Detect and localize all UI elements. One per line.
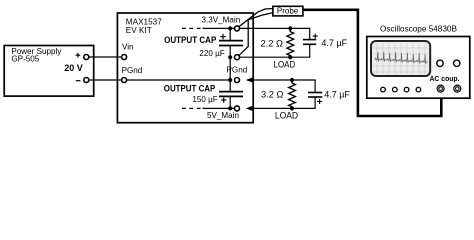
BNC jack input 2 xyxy=(454,85,461,92)
wire - to PGnd xyxy=(89,79,230,81)
svg-text:LOAD: LOAD xyxy=(275,111,298,121)
dashed internal wire 3.3V xyxy=(182,27,203,29)
junction resistor R1 top xyxy=(288,26,292,30)
arrow into PGnd lower pin xyxy=(246,78,253,83)
plus terminal label xyxy=(76,53,81,58)
probe tip wire from 3.3V pin xyxy=(239,9,273,27)
resistor R2 3.2 ohm xyxy=(289,80,296,108)
svg-text:GP-505: GP-505 xyxy=(11,55,39,64)
knob 4 xyxy=(416,87,421,92)
screen graticule xyxy=(373,43,429,74)
capacitor C4 plus sign xyxy=(317,99,322,104)
svg-text:OUTPUT CAP: OUTPUT CAP xyxy=(164,35,217,46)
capacitor C1 220uF plus sign xyxy=(220,34,225,39)
knob 5 xyxy=(437,60,443,66)
knob 3 xyxy=(404,87,409,92)
svg-text:20 V: 20 V xyxy=(64,63,83,73)
svg-text:3.2 Ω: 3.2 Ω xyxy=(261,89,284,99)
knob 1 xyxy=(381,87,386,92)
arrow into 5V_Main pin xyxy=(246,106,253,111)
wire 3.3V rail xyxy=(240,27,311,29)
power supply box GP-505 xyxy=(4,46,94,97)
pin PGnd upper (right) xyxy=(235,55,240,60)
capacitor C2 plus sign xyxy=(221,97,226,102)
svg-text:AC coup.: AC coup. xyxy=(430,74,460,83)
oscilloscope screen bezel xyxy=(371,41,430,76)
capacitor C3 4.7uF xyxy=(309,28,311,39)
resistor R1 2.2 ohm xyxy=(287,28,294,57)
svg-text:EV KIT: EV KIT xyxy=(126,26,152,35)
junction 3.3V xyxy=(228,26,232,30)
oscilloscope box xyxy=(367,37,470,99)
pin 5V_Main xyxy=(235,106,240,111)
svg-text:220 µF: 220 µF xyxy=(199,49,224,58)
terminal + xyxy=(84,55,89,60)
junction resistor R1 bottom xyxy=(288,55,292,59)
svg-text:4.7 µF: 4.7 µF xyxy=(324,89,350,99)
knob 6 xyxy=(454,60,460,66)
dashed internal wire 5V xyxy=(182,107,203,109)
junction resistor R2 top xyxy=(290,78,294,82)
probe box xyxy=(273,6,303,16)
capacitor C4 4.7uF xyxy=(314,80,316,93)
svg-text:4.7 µF: 4.7 µF xyxy=(321,38,347,48)
minus terminal label xyxy=(76,80,81,82)
waveform trace xyxy=(375,52,428,64)
svg-text:Oscilloscope 54830B: Oscilloscope 54830B xyxy=(380,24,457,33)
probe coax cable xyxy=(303,10,441,116)
terminal - xyxy=(84,78,89,83)
wire 3.3V ground rail xyxy=(240,56,311,58)
wire PGnd column xyxy=(229,57,231,80)
capacitor C2 150uF xyxy=(229,80,231,92)
wire 5V rail xyxy=(251,107,316,109)
capacitor C3 plus sign xyxy=(313,34,318,39)
wire + to Vin xyxy=(89,56,122,58)
wire 5V to pin xyxy=(203,107,237,109)
pin PGnd lower (right) xyxy=(235,78,240,83)
junction PGnd upper xyxy=(228,55,232,59)
wire ground rail (5V load) xyxy=(251,79,316,81)
pin 3.3V_Main xyxy=(235,26,240,31)
svg-text:Vin: Vin xyxy=(122,42,134,51)
svg-text:3.3V_Main: 3.3V_Main xyxy=(202,15,241,24)
svg-text:150 µF: 150 µF xyxy=(192,95,217,104)
probe ground wire from PGnd pin xyxy=(239,13,273,56)
svg-text:OUTPUT CAP: OUTPUT CAP xyxy=(164,84,216,95)
svg-text:5V_Main: 5V_Main xyxy=(207,111,239,120)
junction resistor R2 bottom xyxy=(290,106,294,110)
junction 5V xyxy=(228,106,232,110)
knob 2 xyxy=(393,87,398,92)
wire 3.3V to pin xyxy=(203,27,237,29)
BNC jack input 1 xyxy=(437,85,444,92)
svg-text:PGnd: PGnd xyxy=(122,66,143,75)
svg-text:Probe: Probe xyxy=(277,6,299,15)
junction PGnd lower xyxy=(228,78,232,82)
capacitor C1 220uF xyxy=(229,28,231,40)
svg-text:LOAD: LOAD xyxy=(274,59,296,69)
MAX1537 EV KIT box xyxy=(117,13,253,123)
svg-text:2.2 Ω: 2.2 Ω xyxy=(261,38,284,48)
